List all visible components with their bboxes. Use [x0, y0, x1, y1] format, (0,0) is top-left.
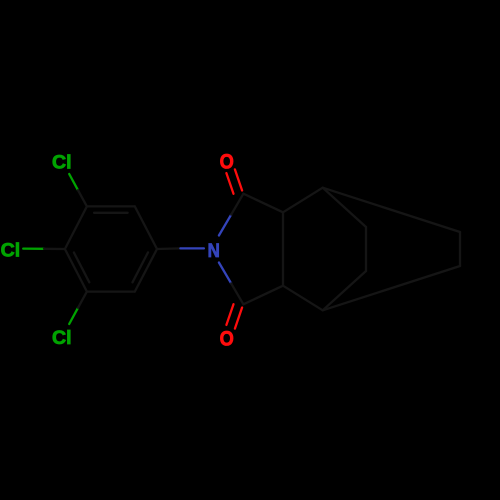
- svg-text:O: O: [220, 326, 234, 350]
- svg-text:O: O: [220, 149, 234, 173]
- svg-text:Cl: Cl: [52, 152, 72, 174]
- svg-text:N: N: [208, 240, 220, 262]
- svg-text:Cl: Cl: [1, 240, 21, 262]
- svg-text:Cl: Cl: [52, 327, 72, 349]
